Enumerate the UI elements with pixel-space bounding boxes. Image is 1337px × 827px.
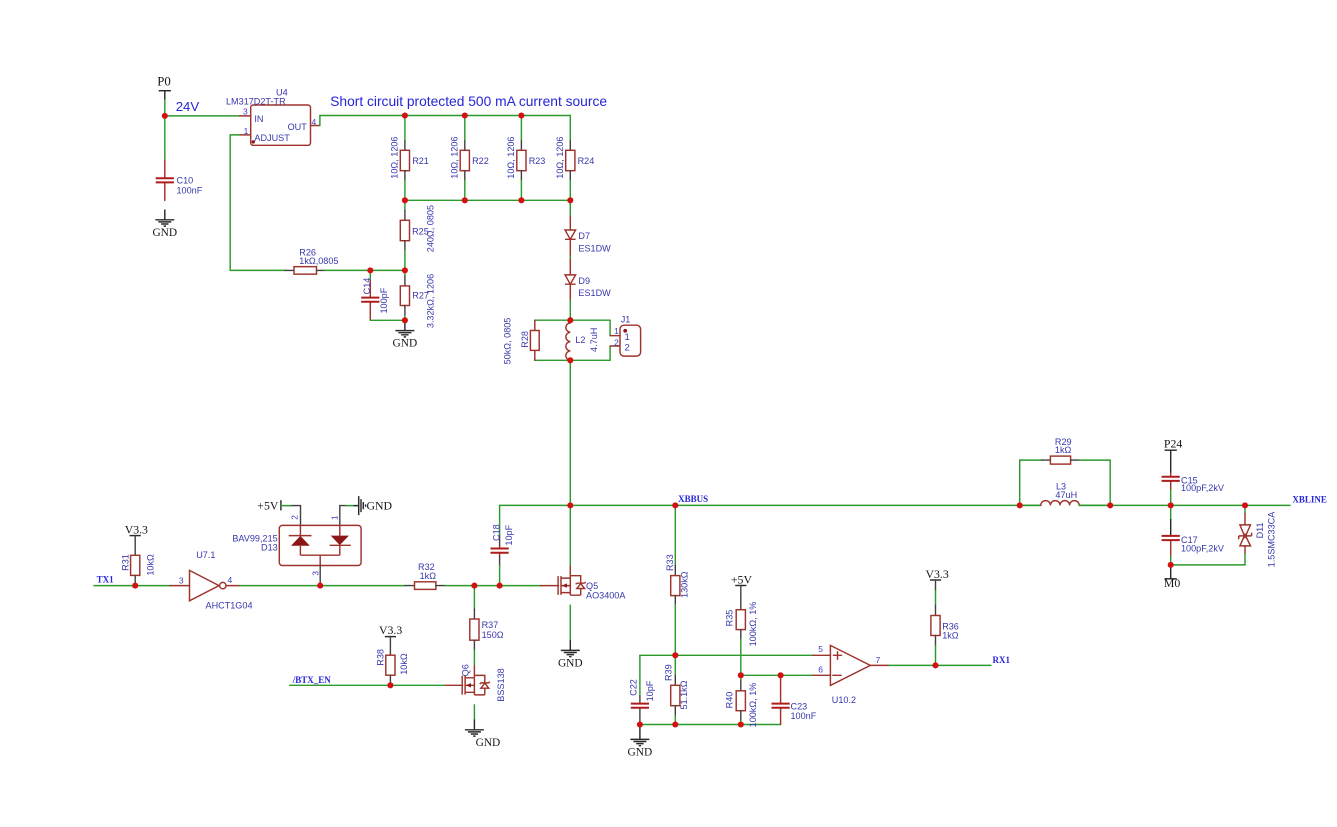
- node R40 bottom: [738, 721, 744, 727]
- wire tank to XBBUS: [569, 360, 571, 505]
- svg-text:TX1: TX1: [97, 574, 115, 584]
- svg-text:RX1: RX1: [993, 655, 1011, 665]
- svg-text:Q6: Q6: [461, 664, 471, 676]
- svg-text:R38: R38: [375, 649, 385, 666]
- wire U4 OUT to rail: [320, 116, 405, 126]
- svg-text:2: 2: [614, 337, 619, 347]
- svg-text:150Ω: 150Ω: [482, 630, 504, 640]
- ground below C22: [639, 725, 641, 730]
- svg-text:L2: L2: [575, 335, 585, 345]
- diode D9 ES1DW: [565, 259, 611, 300]
- svg-text:10Ω, 1206: 10Ω, 1206: [450, 136, 460, 178]
- ground below R27: [395, 320, 414, 337]
- svg-text:C23: C23: [791, 701, 808, 711]
- svg-text:6: 6: [818, 664, 823, 674]
- svg-text:100nF: 100nF: [177, 185, 203, 195]
- resistor R23 10&#937; 1206: [506, 116, 545, 201]
- svg-text:R31: R31: [120, 554, 130, 571]
- svg-text:+5V: +5V: [257, 499, 279, 513]
- wire Q6 source to ground: [473, 705, 475, 720]
- svg-text:10pF: 10pF: [645, 680, 655, 701]
- resistor R24 10&#937; 1206: [555, 116, 594, 201]
- svg-text:1: 1: [625, 332, 630, 343]
- svg-text:3: 3: [311, 571, 321, 576]
- wire /BTX_EN: [290, 684, 445, 686]
- node C23 tap: [778, 672, 784, 678]
- node D11 top: [1242, 502, 1248, 508]
- capacitor C15 100pF 2kV: [1162, 450, 1225, 505]
- node R33/+input junction: [672, 652, 678, 658]
- wire C17/D11 bottom link: [1171, 564, 1245, 566]
- resistor R29 1k&#937;: [1020, 437, 1110, 506]
- svg-text:D7: D7: [578, 231, 590, 241]
- resistor R40 100k&#937; 1%: [724, 675, 757, 727]
- wire P0 to junction: [164, 100, 166, 116]
- svg-text:3.32kΩ, 1206: 3.32kΩ, 1206: [426, 274, 436, 328]
- TVS diode D11 1.5SMC33CA: [1239, 505, 1277, 567]
- svg-text:10Ω, 1206: 10Ω, 1206: [506, 136, 516, 178]
- svg-text:7: 7: [876, 655, 881, 665]
- node C14 tap: [367, 267, 373, 273]
- dual diode D13 BAV99,215: [232, 515, 361, 586]
- svg-text:100pF: 100pF: [379, 287, 389, 313]
- svg-text:XBBUS: XBBUS: [678, 494, 708, 504]
- wire XBBUS to Q5 drain: [569, 505, 571, 565]
- power port P24: [1164, 436, 1182, 450]
- svg-text:3: 3: [243, 107, 248, 117]
- svg-text:24V: 24V: [176, 99, 200, 114]
- svg-text:OUT: OUT: [288, 122, 308, 132]
- svg-text:GND: GND: [628, 746, 653, 758]
- wire 24V to U4 IN: [165, 115, 240, 117]
- svg-text:U7.1: U7.1: [196, 550, 215, 560]
- node R37 tap: [471, 583, 477, 589]
- power V3.3 at R36: [926, 567, 949, 581]
- power V3.3 at R38: [379, 623, 402, 637]
- node L3 junctions: [1017, 502, 1023, 508]
- svg-text:4.7uH: 4.7uH: [589, 328, 599, 352]
- capacitor C22 10pF: [629, 655, 656, 724]
- wire D9 to tank: [569, 300, 571, 320]
- transistor Q5 AO3400A: [541, 566, 627, 601]
- node second rail junctions: [518, 197, 524, 203]
- svg-text:D11: D11: [1255, 522, 1265, 538]
- svg-text:10Ω, 1206: 10Ω, 1206: [555, 136, 565, 178]
- wire R26 to R27 column: [325, 269, 405, 271]
- resistor R36 1k&#937;: [931, 580, 959, 665]
- svg-text:R35: R35: [725, 610, 735, 627]
- svg-text:1kΩ: 1kΩ: [942, 631, 959, 641]
- wire XBBUS rail right: [1079, 504, 1290, 506]
- svg-text:V3.3: V3.3: [926, 567, 949, 581]
- svg-text:P24: P24: [1164, 436, 1182, 450]
- node tank top: [567, 317, 573, 323]
- wire C14 bottom to ground node: [370, 319, 405, 321]
- capacitor C10 100nF: [156, 116, 203, 201]
- svg-text:C18: C18: [491, 524, 501, 541]
- svg-text:1.5SMC33CA: 1.5SMC33CA: [1267, 511, 1277, 568]
- regulator U4 LM317D2T-TR: [226, 88, 320, 146]
- node R25/R27: [402, 267, 408, 273]
- ground below C10: [155, 210, 174, 227]
- svg-text:C14: C14: [362, 278, 372, 295]
- svg-text:GND: GND: [152, 227, 177, 239]
- wire bottom rail: [640, 724, 781, 726]
- svg-text:GND: GND: [558, 657, 583, 669]
- svg-text:R23: R23: [529, 156, 546, 166]
- svg-text:AHCT1G04: AHCT1G04: [206, 600, 253, 610]
- node second rail junctions: [567, 197, 573, 203]
- svg-text:50kΩ, 0805: 50kΩ, 0805: [503, 318, 513, 365]
- svg-text:51.1kΩ: 51.1kΩ: [679, 680, 689, 709]
- wire inverter out to gate net: [240, 585, 406, 587]
- wire Q5 source to ground: [569, 605, 571, 640]
- resistor R35 100k&#937; 1%: [725, 586, 759, 676]
- svg-text:Short circuit protected 500 mA: Short circuit protected 500 mA current s…: [330, 94, 607, 109]
- wire XBBUS rail: [500, 504, 1041, 506]
- diode D7 ES1DW: [565, 216, 611, 256]
- svg-text:2: 2: [625, 343, 630, 354]
- ground below Q5: [561, 640, 580, 657]
- svg-text:GND: GND: [367, 499, 393, 513]
- inductor L2 4.7uH: [566, 320, 599, 360]
- node R39 bottom: [672, 721, 678, 727]
- wire op-amp output RX1: [889, 664, 991, 666]
- svg-text:ES1DW: ES1DW: [578, 288, 611, 298]
- svg-text:R37: R37: [482, 620, 499, 630]
- wire tank bottom rail: [535, 359, 610, 361]
- wire R37 to Q6 drain: [473, 650, 475, 665]
- svg-text:1kΩ: 1kΩ: [420, 571, 437, 581]
- node C18 tap: [497, 583, 503, 589]
- svg-text:+5V: +5V: [731, 572, 753, 586]
- ground below Q6: [465, 720, 484, 737]
- svg-text:C10: C10: [177, 175, 194, 185]
- svg-text:R21: R21: [412, 156, 429, 166]
- wire top rail: [405, 115, 570, 117]
- wire TX1: [94, 585, 170, 587]
- svg-text:IN: IN: [254, 114, 263, 124]
- node rail junctions: [518, 112, 524, 118]
- wire second rail: [405, 199, 570, 201]
- resistor R31 10k&#937;: [120, 536, 155, 586]
- svg-text:100pF,2kV: 100pF,2kV: [1181, 483, 1225, 493]
- node C17 bottom: [1168, 562, 1174, 568]
- svg-text:5: 5: [818, 644, 823, 654]
- svg-text:R40: R40: [724, 692, 734, 709]
- svg-text:100pF,2kV: 100pF,2kV: [1181, 544, 1225, 554]
- svg-text:3: 3: [179, 575, 184, 585]
- svg-text:GND: GND: [393, 338, 418, 350]
- node R36 tap: [932, 662, 938, 668]
- svg-text:J1: J1: [621, 314, 631, 324]
- resistor R27 3.32k&#937; 1206: [400, 270, 435, 328]
- resistor R38 10k&#937;: [375, 637, 409, 686]
- resistor R26 1k&#937; 0805: [285, 248, 338, 275]
- resistor R22 10&#937; 1206: [450, 116, 489, 201]
- resistor R32 1k&#937;: [405, 562, 445, 589]
- wire rail to D7: [569, 200, 571, 216]
- capacitor C14 100pF: [361, 270, 389, 320]
- svg-text:47uH: 47uH: [1055, 490, 1077, 500]
- wire ADJUST net: [230, 135, 285, 271]
- svg-text:4: 4: [312, 117, 317, 127]
- capacitor C18 10pF: [491, 505, 515, 585]
- node rail junctions: [402, 112, 408, 118]
- svg-text:P0: P0: [157, 75, 171, 89]
- resistor R37 150&#937;: [470, 586, 504, 650]
- connector J1: [610, 314, 641, 360]
- svg-text:GND: GND: [476, 737, 501, 749]
- svg-text:100kΩ, 1%: 100kΩ, 1%: [748, 683, 758, 728]
- svg-text:130kΩ: 130kΩ: [679, 571, 689, 598]
- svg-text:R24: R24: [578, 156, 595, 166]
- wire R32 to Q5 gate: [445, 585, 540, 587]
- node XBBUS junctions: [567, 502, 573, 508]
- svg-text:/BTX_EN: /BTX_EN: [292, 675, 332, 685]
- wire tank top rail: [535, 319, 610, 321]
- node R38 tap: [387, 682, 393, 688]
- node second rail junctions: [462, 197, 468, 203]
- svg-text:LM317D2T-TR: LM317D2T-TR: [226, 97, 286, 107]
- node bottom-rail gnd tap: [637, 721, 643, 727]
- svg-text:R39: R39: [664, 664, 674, 681]
- svg-text:ES1DW: ES1DW: [578, 244, 611, 254]
- node XBBUS junctions: [672, 502, 678, 508]
- node second rail junctions: [402, 197, 408, 203]
- svg-text:R22: R22: [472, 156, 489, 166]
- transistor Q6 BSS138: [445, 664, 506, 701]
- svg-text:R28: R28: [520, 331, 530, 348]
- svg-text:XBLINE: XBLINE: [1292, 495, 1327, 505]
- svg-text:ADJUST: ADJUST: [254, 133, 290, 143]
- capacitor C23 100nF: [772, 675, 817, 724]
- node tank bottom: [567, 357, 573, 363]
- power V3.3 at R31: [125, 523, 148, 537]
- svg-text:AO3400A: AO3400A: [586, 591, 626, 601]
- node R31 tap: [132, 583, 138, 589]
- svg-text:1: 1: [614, 326, 619, 336]
- svg-text:V3.3: V3.3: [125, 523, 148, 537]
- svg-text:D9: D9: [578, 276, 590, 286]
- svg-text:10kΩ: 10kΩ: [145, 554, 155, 576]
- power +5V at D13: [257, 499, 281, 513]
- inductor L3 47uH: [1020, 481, 1110, 505]
- svg-text:1kΩ: 1kΩ: [1055, 445, 1072, 455]
- svg-text:U10.2: U10.2: [832, 695, 856, 705]
- svg-text:1kΩ,0805: 1kΩ,0805: [299, 256, 338, 266]
- resistor R25 240&#937; 0805: [400, 200, 435, 270]
- svg-text:1: 1: [329, 515, 339, 520]
- op-amp U10.2: [813, 644, 889, 705]
- resistor R21 10&#937; 1206: [390, 116, 429, 201]
- svg-text:1: 1: [244, 126, 249, 136]
- node D13 tap: [317, 583, 323, 589]
- svg-text:M0: M0: [1164, 576, 1180, 590]
- power +5V at R35: [731, 572, 753, 586]
- svg-text:100kΩ, 1%: 100kΩ, 1%: [748, 602, 758, 647]
- svg-text:100nF: 100nF: [791, 711, 817, 721]
- svg-text:D13: D13: [261, 543, 278, 553]
- node C15/C17: [1168, 502, 1174, 508]
- wire -input net: [741, 674, 813, 676]
- inverter U7.1 AHCT1G04: [170, 550, 253, 611]
- svg-text:10pF: 10pF: [504, 524, 514, 545]
- node 24V junction: [162, 113, 168, 119]
- node rail junctions: [462, 112, 468, 118]
- wire D7 to D9: [569, 256, 571, 259]
- svg-text:2: 2: [289, 515, 299, 520]
- svg-text:C22: C22: [629, 679, 639, 696]
- svg-text:240Ω, 0805: 240Ω, 0805: [425, 205, 435, 252]
- node L3 junctions: [1107, 502, 1113, 508]
- node R35/R40 junction: [738, 672, 744, 678]
- node ground junction: [402, 317, 408, 323]
- resistor R33 130k&#937;: [665, 505, 689, 655]
- svg-text:R33: R33: [665, 554, 675, 571]
- ground at D13 pin1: [340, 496, 393, 525]
- svg-text:10kΩ: 10kΩ: [399, 653, 409, 675]
- svg-text:4: 4: [228, 575, 233, 585]
- svg-text:V3.3: V3.3: [379, 623, 402, 637]
- resistor R28 50k&#937; 0805: [503, 318, 540, 365]
- svg-text:10Ω, 1206: 10Ω, 1206: [390, 136, 400, 178]
- svg-text:Q5: Q5: [586, 581, 598, 591]
- svg-text:BSS138: BSS138: [496, 668, 506, 701]
- power port M0: [1164, 565, 1180, 590]
- capacitor C17 100pF 2kV: [1162, 505, 1225, 565]
- power port P0: [157, 75, 171, 100]
- wire +input net: [640, 654, 813, 656]
- resistor R39 51.1k&#937;: [664, 655, 689, 724]
- wire +5V to D13 pin2: [281, 505, 292, 507]
